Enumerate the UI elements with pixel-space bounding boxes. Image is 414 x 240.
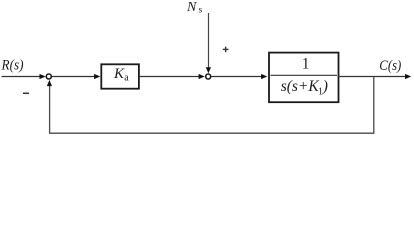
wire input R(s) to summing junction S1	[2, 74, 46, 79]
summing junction S1	[46, 74, 51, 79]
minus sign at S1	[23, 92, 29, 94]
svg-text:K: K	[113, 66, 125, 82]
wire S2 to block G	[212, 74, 268, 79]
wire block Ka to summing junction S2	[139, 74, 205, 79]
svg-text:N: N	[186, 0, 197, 15]
label C(s)	[379, 58, 401, 74]
svg-text:s: s	[199, 6, 203, 16]
block G transfer function 1/(s(s+K1))	[269, 53, 339, 103]
svg-text:C(s): C(s)	[379, 58, 401, 74]
svg-text:1: 1	[302, 56, 310, 73]
svg-text:R(s): R(s)	[1, 57, 24, 73]
wire S1 to block Ka	[52, 74, 100, 79]
block Ka	[101, 64, 139, 88]
label R(s)	[1, 57, 24, 73]
plus sign at S2	[223, 47, 229, 53]
wire block G to output C(s)	[338, 74, 411, 79]
svg-text:): )	[322, 78, 328, 95]
svg-text:s(s+K: s(s+K	[281, 78, 320, 95]
svg-text:a: a	[124, 73, 129, 84]
label Ns	[186, 0, 203, 16]
wire feedback from output down, across bottom, up into S1	[47, 77, 374, 134]
wire Ns to summing junction S2	[206, 13, 211, 73]
summing junction S2	[206, 74, 211, 79]
